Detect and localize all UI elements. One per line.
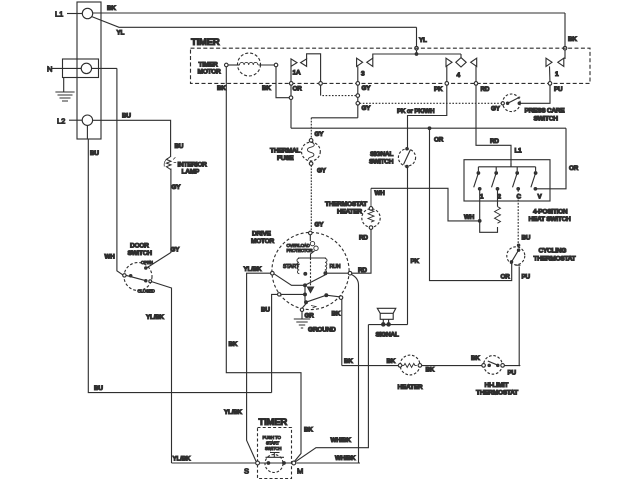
svg-text:OR: OR	[501, 274, 511, 281]
svg-text:OR: OR	[569, 165, 579, 172]
svg-text:START: START	[283, 264, 300, 270]
node YL junction	[415, 53, 418, 56]
svg-text:PU: PU	[522, 274, 531, 281]
svg-text:START: START	[266, 441, 280, 446]
motor RD terminal	[327, 271, 352, 275]
svg-text:BK: BK	[471, 355, 480, 362]
wire GY contact3 to thermal fuse	[311, 105, 371, 139]
drive motor circle	[251, 231, 349, 310]
signal switch	[369, 148, 416, 168]
wire GY fuse to motor	[311, 165, 326, 233]
wire PU cycling stat to hi-limit	[519, 266, 530, 365]
svg-text:C: C	[517, 194, 522, 201]
motor lower row BU	[278, 287, 307, 303]
contact 3	[356, 54, 461, 118]
terminal block TB1	[63, 2, 102, 139]
svg-text:WH: WH	[375, 190, 386, 197]
wire PK signal switch to speaker	[408, 168, 420, 325]
svg-text:BK: BK	[262, 85, 271, 92]
thermostat heater	[325, 188, 380, 229]
svg-text:3: 3	[361, 71, 365, 78]
svg-text:V: V	[538, 194, 543, 201]
svg-text:BK: BK	[217, 85, 226, 92]
svg-text:SWITCH: SWITCH	[369, 159, 394, 166]
svg-text:TIMER: TIMER	[259, 417, 288, 428]
cycling thermostat	[507, 247, 576, 265]
svg-text:BK: BK	[332, 311, 341, 318]
svg-text:HEATER: HEATER	[398, 384, 423, 391]
wire YL drop to timer	[415, 27, 427, 54]
svg-text:FUSE: FUSE	[277, 155, 294, 162]
svg-text:1: 1	[555, 71, 559, 78]
svg-text:SWITCH: SWITCH	[128, 250, 153, 257]
resistor heat switch	[495, 190, 501, 223]
motor cam dashed line	[308, 258, 314, 293]
svg-text:BU: BU	[94, 385, 103, 392]
timer dashed box	[191, 48, 591, 83]
svg-text:M: M	[297, 467, 303, 476]
run winding	[325, 259, 341, 274]
wire BK drop to timer contact 1	[563, 13, 577, 59]
motor centrifugal switch	[305, 294, 343, 308]
wire OR heat switch V	[535, 128, 578, 189]
svg-text:4: 4	[457, 72, 461, 79]
svg-text:BK: BK	[568, 36, 577, 43]
svg-text:GY: GY	[171, 247, 181, 254]
terminal L1	[55, 8, 93, 18]
svg-text:MOTOR: MOTOR	[251, 238, 274, 245]
svg-text:INTERIOR: INTERIOR	[178, 162, 208, 169]
svg-text:CLOSED: CLOSED	[138, 289, 155, 294]
contact 1	[546, 58, 564, 85]
svg-text:PUSH TO: PUSH TO	[263, 435, 282, 440]
svg-text:L1: L1	[55, 10, 63, 19]
svg-text:DOOR: DOOR	[130, 243, 149, 250]
wire YL/BK motor to S	[224, 266, 271, 462]
thermal fuse	[270, 139, 320, 166]
svg-text:SWITCH: SWITCH	[534, 116, 559, 123]
svg-text:2: 2	[498, 194, 502, 201]
svg-text:BK: BK	[229, 341, 238, 348]
press care switch	[501, 94, 565, 123]
svg-text:GY: GY	[362, 105, 372, 112]
svg-text:LAMP: LAMP	[182, 169, 200, 176]
svg-text:PRESS CARE: PRESS CARE	[525, 108, 566, 115]
wire YL top	[92, 17, 417, 37]
timer motor coil M	[225, 53, 278, 76]
wire GY dotted to press care	[360, 103, 503, 112]
svg-text:THERMOSTAT: THERMOSTAT	[325, 201, 367, 208]
bottom timer dashed box	[258, 417, 292, 479]
svg-text:BU: BU	[261, 307, 270, 314]
svg-text:BK: BK	[107, 5, 116, 12]
svg-text:N: N	[47, 65, 52, 74]
heat switch 2	[492, 167, 502, 201]
svg-text:BK: BK	[304, 427, 313, 434]
heat switch C	[513, 167, 522, 201]
svg-text:THERMOSTAT: THERMOSTAT	[534, 256, 576, 263]
svg-text:GY: GY	[317, 168, 327, 175]
svg-text:HEAT SWITCH: HEAT SWITCH	[529, 216, 572, 223]
svg-text:OR: OR	[434, 137, 444, 144]
svg-text:PROTECTOR: PROTECTOR	[287, 248, 313, 253]
speaker signal	[368, 308, 407, 338]
svg-text:RD: RD	[359, 235, 368, 242]
timer motor label	[198, 62, 221, 76]
wire OR bus	[291, 127, 566, 144]
main heater line	[342, 355, 520, 377]
4-position heat switch box	[464, 160, 571, 223]
wire BK L1 top	[93, 5, 565, 13]
wire WH sw1 junction resistor	[478, 190, 497, 232]
svg-text:YL/BK: YL/BK	[146, 314, 165, 321]
door switch	[123, 243, 155, 294]
svg-text:HEATER: HEATER	[337, 209, 362, 216]
svg-text:YL/BK: YL/BK	[173, 456, 192, 463]
svg-text:THERMAL: THERMAL	[270, 148, 300, 155]
hi-limit thermostat	[476, 356, 518, 397]
wire BU bottom horizontal	[88, 139, 271, 393]
svg-text:TIMER: TIMER	[199, 62, 219, 69]
ground symbol motor	[294, 319, 336, 334]
svg-text:RD: RD	[490, 138, 499, 145]
main bottom line with S and M	[172, 461, 359, 475]
start winding	[283, 259, 300, 274]
svg-text:4-POSITION: 4-POSITION	[533, 209, 568, 216]
svg-text:OR: OR	[293, 86, 303, 93]
svg-text:RD: RD	[481, 86, 490, 93]
svg-text:WH: WH	[105, 254, 116, 261]
svg-text:L1: L1	[515, 148, 523, 155]
wire RD thermostat heater to motor	[352, 229, 371, 274]
wire BK timer motor long	[217, 67, 313, 461]
svg-text:BU: BU	[175, 143, 184, 150]
motor start contact	[304, 272, 307, 275]
svg-text:1A: 1A	[293, 70, 301, 77]
motor YL/BK terminal + arm	[271, 271, 326, 286]
svg-text:GY: GY	[315, 131, 325, 138]
svg-text:OPEN: OPEN	[141, 260, 153, 265]
svg-text:GY: GY	[491, 106, 501, 113]
svg-text:PU: PU	[554, 86, 563, 93]
wire L2 stub down	[86, 125, 88, 139]
motor top terminal	[309, 231, 313, 235]
terminal N	[47, 63, 117, 73]
svg-text:SIGNAL: SIGNAL	[370, 151, 393, 158]
svg-text:MOTOR: MOTOR	[198, 69, 221, 76]
svg-text:DRIVE: DRIVE	[252, 231, 272, 238]
svg-text:1: 1	[480, 194, 484, 201]
motor run contact	[324, 272, 327, 275]
svg-text:RUN: RUN	[330, 264, 341, 270]
svg-text:SWITCH: SWITCH	[265, 446, 281, 451]
ground (neutral)	[55, 77, 74, 101]
svg-text:PK: PK	[434, 86, 443, 93]
interior lamp	[164, 157, 207, 176]
svg-text:S: S	[244, 467, 249, 476]
svg-text:YL/BK: YL/BK	[244, 266, 263, 273]
svg-text:YL: YL	[117, 30, 125, 37]
wire BU motor to bottom	[261, 294, 278, 392]
svg-text:PK: PK	[411, 258, 420, 265]
heat switch V	[531, 167, 543, 201]
motor ground wire GR	[300, 304, 314, 320]
svg-text:BU: BU	[522, 235, 531, 242]
svg-text:GROUND: GROUND	[308, 327, 336, 334]
wire WH N to door switch	[105, 68, 123, 275]
svg-text:GY: GY	[362, 85, 372, 92]
overload protector	[287, 235, 319, 258]
wire BK timer motor right to OR node	[262, 67, 289, 98]
svg-text:BK: BK	[344, 358, 353, 365]
wire PK from contact 4	[397, 85, 447, 148]
svg-text:SIGNAL: SIGNAL	[376, 332, 399, 339]
svg-text:BK: BK	[426, 367, 435, 374]
svg-text:PK or PK/WH: PK or PK/WH	[397, 108, 435, 115]
svg-text:BK: BK	[387, 358, 396, 365]
heat switch 1	[474, 167, 484, 201]
interior lamp circuit wire BU	[93, 113, 184, 158]
svg-text:WH: WH	[464, 214, 475, 221]
wire WH/BK speaker to M	[295, 325, 368, 462]
svg-text:YL: YL	[419, 37, 427, 44]
svg-text:RD: RD	[358, 267, 367, 274]
heater	[398, 355, 423, 391]
wire BU heat switch C to cycling stat	[517, 190, 530, 246]
contact 4	[445, 54, 478, 85]
wire RD from contact 4	[476, 85, 522, 167]
svg-text:HI-LIMIT: HI-LIMIT	[485, 382, 509, 389]
wire OR from 1A down	[289, 85, 302, 128]
svg-text:YL/BK: YL/BK	[224, 409, 243, 416]
svg-text:BU: BU	[122, 113, 131, 120]
wire GY lamp to door switch	[147, 169, 182, 269]
wire dotted 1A to contact3 node	[322, 95, 356, 97]
wire PU from contact 1	[521, 85, 563, 103]
svg-text:L2: L2	[57, 117, 65, 126]
wire motor RD to M vertical	[352, 275, 361, 464]
motor winding bus	[299, 257, 326, 260]
svg-text:THERMOSTAT: THERMOSTAT	[476, 390, 518, 397]
wire WH bus	[371, 188, 479, 221]
svg-text:WH/BK: WH/BK	[335, 455, 356, 462]
wire BK motor to heater line	[332, 299, 342, 365]
svg-text:GY: GY	[172, 184, 182, 191]
svg-text:WH/BK: WH/BK	[331, 437, 352, 444]
wire YL/BK door switch to S	[146, 282, 191, 463]
svg-text:BU: BU	[90, 150, 99, 157]
terminal L2	[57, 115, 93, 126]
svg-text:TIMER: TIMER	[191, 37, 220, 48]
wire OR cycling stat	[430, 130, 512, 281]
svg-text:CYCLING: CYCLING	[539, 248, 567, 255]
svg-text:GY: GY	[315, 222, 325, 229]
contact 1A	[289, 54, 322, 96]
svg-text:PU: PU	[508, 370, 517, 377]
push to start switch	[265, 453, 285, 473]
